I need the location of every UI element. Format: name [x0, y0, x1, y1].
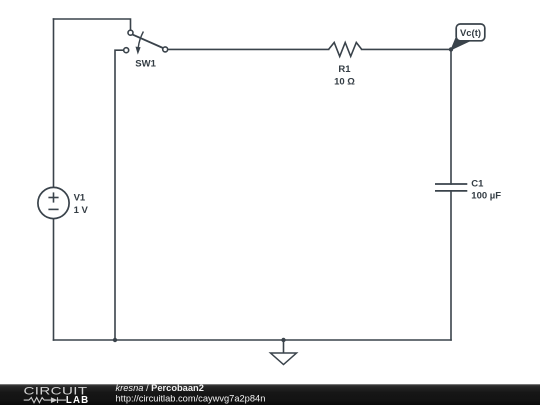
wire top horizontal to switch [54, 19, 131, 30]
svg-text:SW1: SW1 [135, 59, 156, 70]
switch SW1 [124, 30, 168, 69]
wire left rail bottom (V1 bottom to bottom rail) [53, 219, 55, 340]
wire right rail lower (capacitor to bottom) [450, 191, 452, 340]
wire left rail top (V1 top to corner) [53, 19, 55, 187]
svg-text:kresna / Percobaan2: kresna / Percobaan2 [116, 383, 204, 393]
footer bar [0, 383, 540, 406]
node junction at Vc [449, 47, 453, 51]
wire from switch lower-left terminal to left vertical drop [115, 50, 124, 340]
logo diode triangle [51, 397, 58, 403]
logo squiggle resistor-diode [24, 397, 66, 403]
wire resistor to node Vc [362, 48, 451, 50]
svg-text:100 µF: 100 µF [471, 191, 501, 202]
wire right rail upper (node to capacitor) [450, 49, 452, 184]
svg-text:http://circuitlab.com/caywvg7a: http://circuitlab.com/caywvg7a2p84n [116, 394, 266, 404]
plus sign [48, 197, 58, 199]
svg-text:C1: C1 [471, 178, 484, 189]
capacitor C1 [435, 178, 501, 201]
wire bottom rail [54, 339, 452, 341]
minus sign [48, 208, 58, 210]
svg-text:V1: V1 [74, 193, 86, 204]
switch blade [132, 34, 163, 48]
node flag Vc(t) [451, 24, 485, 50]
flag tail [451, 37, 469, 50]
switch right terminal [163, 47, 168, 52]
switch top terminal [128, 30, 133, 35]
svg-text:LAB: LAB [66, 395, 89, 405]
node junction ground / bottom rail [281, 338, 285, 342]
switch lower-left terminal [124, 48, 129, 53]
flag box [456, 24, 485, 41]
svg-text:1 V: 1 V [74, 205, 89, 216]
voltage source V1 [38, 187, 89, 218]
svg-text:Vc(t): Vc(t) [460, 28, 481, 39]
node junction left drop / bottom rail [113, 338, 117, 342]
switch arrowhead [136, 47, 141, 55]
ground [271, 340, 297, 365]
switch action arrow arc [138, 32, 143, 48]
resistor R1 [329, 43, 362, 88]
svg-text:R1: R1 [338, 64, 351, 75]
svg-text:10 Ω: 10 Ω [334, 77, 355, 88]
wire switch right terminal to resistor [168, 48, 329, 50]
